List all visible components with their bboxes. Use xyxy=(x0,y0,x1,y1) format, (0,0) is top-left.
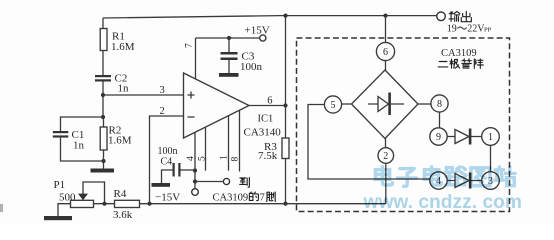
diode D-bridge inner xyxy=(368,93,404,116)
capacitor C2 xyxy=(95,75,111,82)
node pin4 lower junction xyxy=(193,179,197,183)
svg-text:IC1: IC1 xyxy=(258,114,274,125)
resistor R3 xyxy=(282,138,289,159)
svg-text:6: 6 xyxy=(267,96,272,107)
node circle 5 xyxy=(324,96,341,113)
svg-text:8: 8 xyxy=(231,157,241,162)
svg-text:R4: R4 xyxy=(114,188,127,200)
node wiper junction xyxy=(102,202,106,206)
op-amp plus xyxy=(188,92,195,99)
node top rail array xyxy=(383,14,387,18)
svg-text:5: 5 xyxy=(197,156,207,161)
op-amp IC1 triangle xyxy=(184,73,250,138)
wire diamond left to node 5 xyxy=(342,103,351,105)
op-amp bottom pin 4 xyxy=(194,132,196,188)
node top rail R3 xyxy=(283,14,287,18)
label erjiguanzhen (diode array) xyxy=(438,62,448,67)
P1 wiper arm xyxy=(83,182,105,204)
svg-text:500: 500 xyxy=(59,192,76,204)
wire C4 left to -15V xyxy=(162,170,173,183)
node pin4 C4 junction xyxy=(193,168,197,172)
svg-text:CA3109: CA3109 xyxy=(213,193,249,204)
ground (R2/C1) xyxy=(91,169,115,173)
diode D4-3 xyxy=(455,173,471,189)
svg-text:1n: 1n xyxy=(118,83,130,95)
svg-text:22V: 22V xyxy=(467,24,485,35)
svg-text:6: 6 xyxy=(383,47,388,58)
diode bridge diamond xyxy=(352,70,419,139)
ground (bottom left) xyxy=(44,216,72,220)
svg-text:P1: P1 xyxy=(54,179,66,191)
svg-text:PP: PP xyxy=(484,27,492,34)
dashed box CA3109 xyxy=(297,38,510,212)
wire node9 to diode xyxy=(447,136,482,138)
wire R3 vertical xyxy=(285,16,287,204)
svg-text:7: 7 xyxy=(185,43,195,48)
watermark xyxy=(362,167,522,213)
svg-text:3: 3 xyxy=(160,85,165,96)
svg-text:5: 5 xyxy=(331,100,336,111)
svg-text:100n: 100n xyxy=(240,61,263,73)
terminal output xyxy=(437,12,446,21)
pin 6 output wire xyxy=(249,105,286,107)
svg-text:1n: 1n xyxy=(73,140,85,152)
wire R2 stems xyxy=(103,117,105,169)
svg-text:+15V: +15V xyxy=(245,25,270,37)
node circle 8 xyxy=(431,95,448,112)
node bottom rail R3 xyxy=(283,202,287,206)
svg-text:1: 1 xyxy=(488,132,493,143)
svg-text:3.6k: 3.6k xyxy=(113,209,133,221)
potentiometer P1 xyxy=(71,200,94,207)
svg-text:9: 9 xyxy=(436,132,441,143)
svg-text:−15V: −15V xyxy=(155,192,180,204)
svg-text:2: 2 xyxy=(383,151,388,162)
svg-text:7.5k: 7.5k xyxy=(258,150,278,162)
wire P1 left to ground xyxy=(58,204,71,216)
wire node8 to node9 xyxy=(439,112,441,128)
svg-text:100n: 100n xyxy=(158,146,178,157)
node circle 6 xyxy=(376,42,394,60)
node pin6 junction xyxy=(283,103,287,107)
op-amp bottom pin 1 xyxy=(228,116,230,171)
ground (C3) xyxy=(219,73,239,77)
svg-text:2: 2 xyxy=(160,106,165,117)
wire C1 branch xyxy=(61,117,104,131)
node circle 3 xyxy=(482,172,500,190)
node C1 branch junction xyxy=(101,115,105,119)
node pin2 feedback junction xyxy=(147,202,151,206)
P1 wiper arrow xyxy=(78,194,88,201)
wire top rail to node 6 xyxy=(385,16,387,43)
wire node4 to diode xyxy=(447,180,482,182)
node circle 4 xyxy=(430,172,447,189)
svg-text:4: 4 xyxy=(186,156,196,161)
pin 7 wire xyxy=(196,38,260,79)
wire left vertical (R1/C2 branch) xyxy=(102,18,104,29)
wire C1 bottom xyxy=(61,138,104,161)
wire diamond bottom to node 2 xyxy=(385,139,387,148)
op-amp bottom pin 8 xyxy=(239,110,241,171)
wire C2 to node3 xyxy=(102,82,104,118)
terminal +15V xyxy=(260,35,266,41)
wire node6 to diamond xyxy=(385,61,387,70)
terminal -15V bar xyxy=(152,183,171,187)
diode D9-1 xyxy=(455,129,471,145)
op-amp minus xyxy=(188,116,195,118)
capacitor C1 xyxy=(53,131,69,138)
wire diamond right to node 8 xyxy=(418,103,431,105)
svg-text:CA3109: CA3109 xyxy=(441,48,477,59)
wire C4 right to pin4 xyxy=(181,169,196,171)
wire pin 3 input xyxy=(103,94,184,96)
wire node5 around to node4 xyxy=(308,105,430,180)
svg-text:1.6M: 1.6M xyxy=(111,41,135,53)
svg-text:7: 7 xyxy=(260,193,265,204)
wire node1 to node3 xyxy=(490,145,492,171)
svg-text:19: 19 xyxy=(447,24,457,35)
terminal circle (to CA3109 pin7) xyxy=(223,178,229,184)
wire to CA3109 pin7 terminal xyxy=(195,181,223,183)
svg-text:1: 1 xyxy=(220,155,230,160)
capacitor C4 xyxy=(173,163,181,177)
resistor R4 xyxy=(115,200,140,207)
wire node2 to bottom rail xyxy=(385,163,387,203)
node R2 bottom junction xyxy=(101,159,105,163)
node C3 junction xyxy=(227,36,231,40)
terminal circle pin4 bottom xyxy=(192,189,199,196)
svg-text:C4: C4 xyxy=(161,157,173,168)
wire bottom rail xyxy=(140,203,386,205)
node circle 1 xyxy=(482,128,500,146)
wire top rail xyxy=(103,16,437,18)
resistor R2 xyxy=(100,127,107,150)
node circle 2 xyxy=(378,148,394,164)
label dao (to) xyxy=(240,178,250,188)
op-amp bottom pin 5 xyxy=(205,127,207,171)
node circle 9 xyxy=(430,128,447,145)
wire P1 to R4 xyxy=(94,203,115,205)
node pin3 junction xyxy=(101,93,105,97)
resistor R1 xyxy=(100,29,107,51)
wire R1 to C2 xyxy=(102,51,104,76)
label shuchu (output) xyxy=(449,11,460,21)
svg-text:1.6M: 1.6M xyxy=(108,135,132,147)
wire pin2 feedback xyxy=(150,116,184,204)
svg-text:www. cndzz. com: www. cndzz. com xyxy=(362,192,522,213)
capacitor C3 xyxy=(228,38,230,52)
svg-text:8: 8 xyxy=(437,99,442,110)
svg-text:CA3140: CA3140 xyxy=(244,127,282,139)
